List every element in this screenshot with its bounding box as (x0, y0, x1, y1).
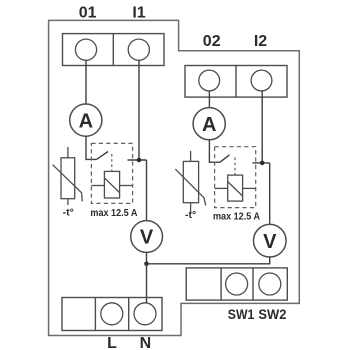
svg-text:N: N (140, 335, 152, 350)
relay K1 contact blade (97, 152, 109, 160)
thermistor RT2 (175, 151, 206, 213)
voltmeter V2 (253, 224, 286, 257)
terminal SW1 (226, 273, 248, 295)
relay K1 coil (91, 171, 132, 198)
wire V1 down to node N (146, 252, 148, 263)
relay K1 enclosure (dashed) (91, 143, 132, 203)
relay K1 mechanical link (dashed) (111, 154, 113, 171)
voltmeter V1 (131, 221, 163, 253)
svg-text:SW1: SW1 (228, 306, 255, 322)
terminal I2 (251, 70, 272, 91)
thermistor RT1 (53, 147, 83, 205)
ammeter A1 (70, 104, 102, 136)
wire A1 to relay K1 contact (86, 136, 97, 159)
device outline (49, 20, 300, 335)
terminal N (134, 303, 156, 325)
svg-text:max 12.5 A: max 12.5 A (213, 210, 260, 222)
svg-text:A: A (202, 114, 216, 136)
wire node N to terminal N (146, 264, 148, 303)
terminal O1 (75, 39, 96, 60)
svg-text:V: V (140, 227, 154, 249)
svg-text:L: L (107, 335, 117, 350)
node I2 junction (260, 161, 265, 166)
svg-text:01: 01 (79, 5, 97, 22)
svg-text:I1: I1 (132, 5, 145, 22)
svg-text:I2: I2 (254, 33, 267, 50)
terminal L (101, 303, 123, 325)
wire I1 down to node (138, 60, 140, 160)
svg-text:SW2: SW2 (258, 306, 286, 322)
relay K2 mechanical link (dashed) (234, 157, 236, 175)
wire node to voltmeter V1 (146, 160, 148, 221)
relay K1 fixed contact (128, 159, 147, 161)
relay K2 enclosure (dashed) (215, 147, 256, 208)
terminal block L/N (62, 298, 162, 331)
svg-text:V: V (263, 231, 277, 253)
svg-text:max 12.5 A: max 12.5 A (90, 207, 137, 219)
relay K2 contact blade (220, 155, 230, 162)
wire node N to voltmeter V2 (147, 257, 270, 264)
ammeter A2 (193, 108, 225, 140)
node I1 junction (137, 158, 142, 163)
wire A2 to relay K2 contact (209, 140, 220, 162)
svg-text:-t°: -t° (185, 209, 196, 221)
wire node to voltmeter V2 (269, 163, 271, 225)
terminal O2 (199, 70, 220, 91)
svg-text:-t°: -t° (63, 207, 74, 219)
terminal block O1/I1 (63, 34, 165, 66)
svg-text:02: 02 (203, 33, 221, 50)
terminal SW2 (259, 273, 281, 295)
terminal block SW1/SW2 (186, 268, 287, 300)
relay K2 coil (215, 175, 256, 201)
node N junction (144, 262, 149, 267)
wire I2 down to node (261, 91, 263, 163)
wire O2 to ammeter A2 (208, 91, 210, 108)
terminal block O2/I2 (185, 66, 287, 98)
svg-text:A: A (79, 110, 93, 132)
wire O1 to ammeter A1 (85, 60, 87, 104)
relay K2 fixed contact (253, 162, 270, 164)
terminal I1 (128, 39, 149, 60)
